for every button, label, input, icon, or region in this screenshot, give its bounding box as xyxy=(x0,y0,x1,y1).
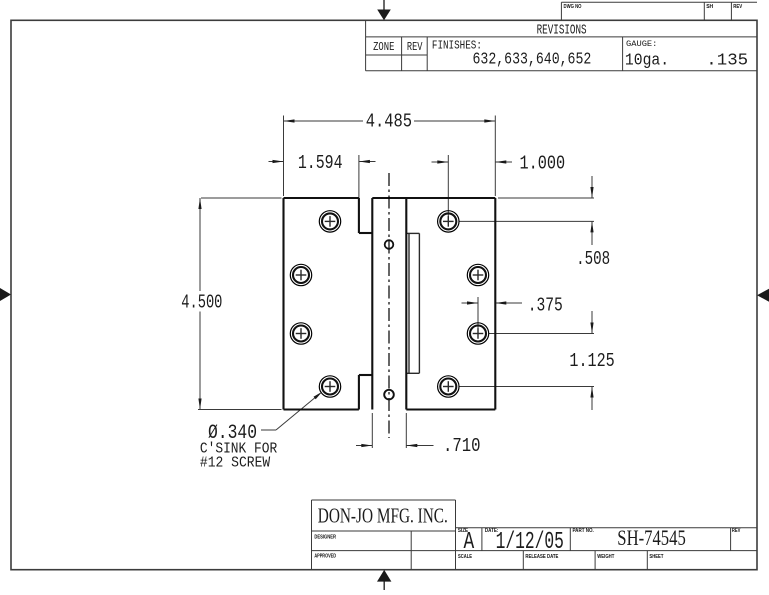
svg-text:1.125: 1.125 xyxy=(569,350,614,372)
svg-text:SH-74545: SH-74545 xyxy=(617,525,686,550)
svg-text:.135: .135 xyxy=(706,51,748,70)
svg-text:SH: SH xyxy=(706,4,713,10)
svg-text:REV: REV xyxy=(733,4,742,10)
svg-text:1/12/05: 1/12/05 xyxy=(496,529,564,556)
svg-text:WEIGHT: WEIGHT xyxy=(597,554,615,560)
svg-text:GAUGE:: GAUGE: xyxy=(626,39,657,49)
svg-text:DON-JO MFG. INC.: DON-JO MFG. INC. xyxy=(318,503,448,527)
svg-text:DATE:: DATE: xyxy=(485,528,499,534)
svg-text:4.500: 4.500 xyxy=(181,292,222,314)
svg-text:DESIGNER: DESIGNER xyxy=(314,535,336,541)
svg-text:APPROVED: APPROVED xyxy=(314,554,336,560)
svg-text:.710: .710 xyxy=(443,435,481,457)
svg-text:SHEET: SHEET xyxy=(649,554,664,560)
svg-text:REVISIONS: REVISIONS xyxy=(537,24,587,39)
svg-text:4.485: 4.485 xyxy=(366,111,412,133)
svg-text:10ga.: 10ga. xyxy=(625,51,669,70)
svg-text:.508: .508 xyxy=(576,248,610,270)
svg-text:SIZE: SIZE xyxy=(458,528,469,534)
svg-text:1.594: 1.594 xyxy=(298,152,343,174)
svg-text:REV: REV xyxy=(732,528,741,534)
svg-text:REV: REV xyxy=(407,41,423,54)
svg-text:.375: .375 xyxy=(528,295,563,317)
svg-text:632,633,640,652: 632,633,640,652 xyxy=(473,49,592,68)
svg-text:1.000: 1.000 xyxy=(520,153,566,175)
svg-text:SCALE: SCALE xyxy=(458,554,472,560)
svg-text:#12 SCREW: #12 SCREW xyxy=(200,454,270,471)
svg-text:PART NO.: PART NO. xyxy=(573,528,595,534)
svg-text:DWG NO: DWG NO xyxy=(564,4,582,10)
svg-text:RELEASE DATE: RELEASE DATE xyxy=(525,554,558,560)
svg-text:ZONE: ZONE xyxy=(373,41,394,54)
